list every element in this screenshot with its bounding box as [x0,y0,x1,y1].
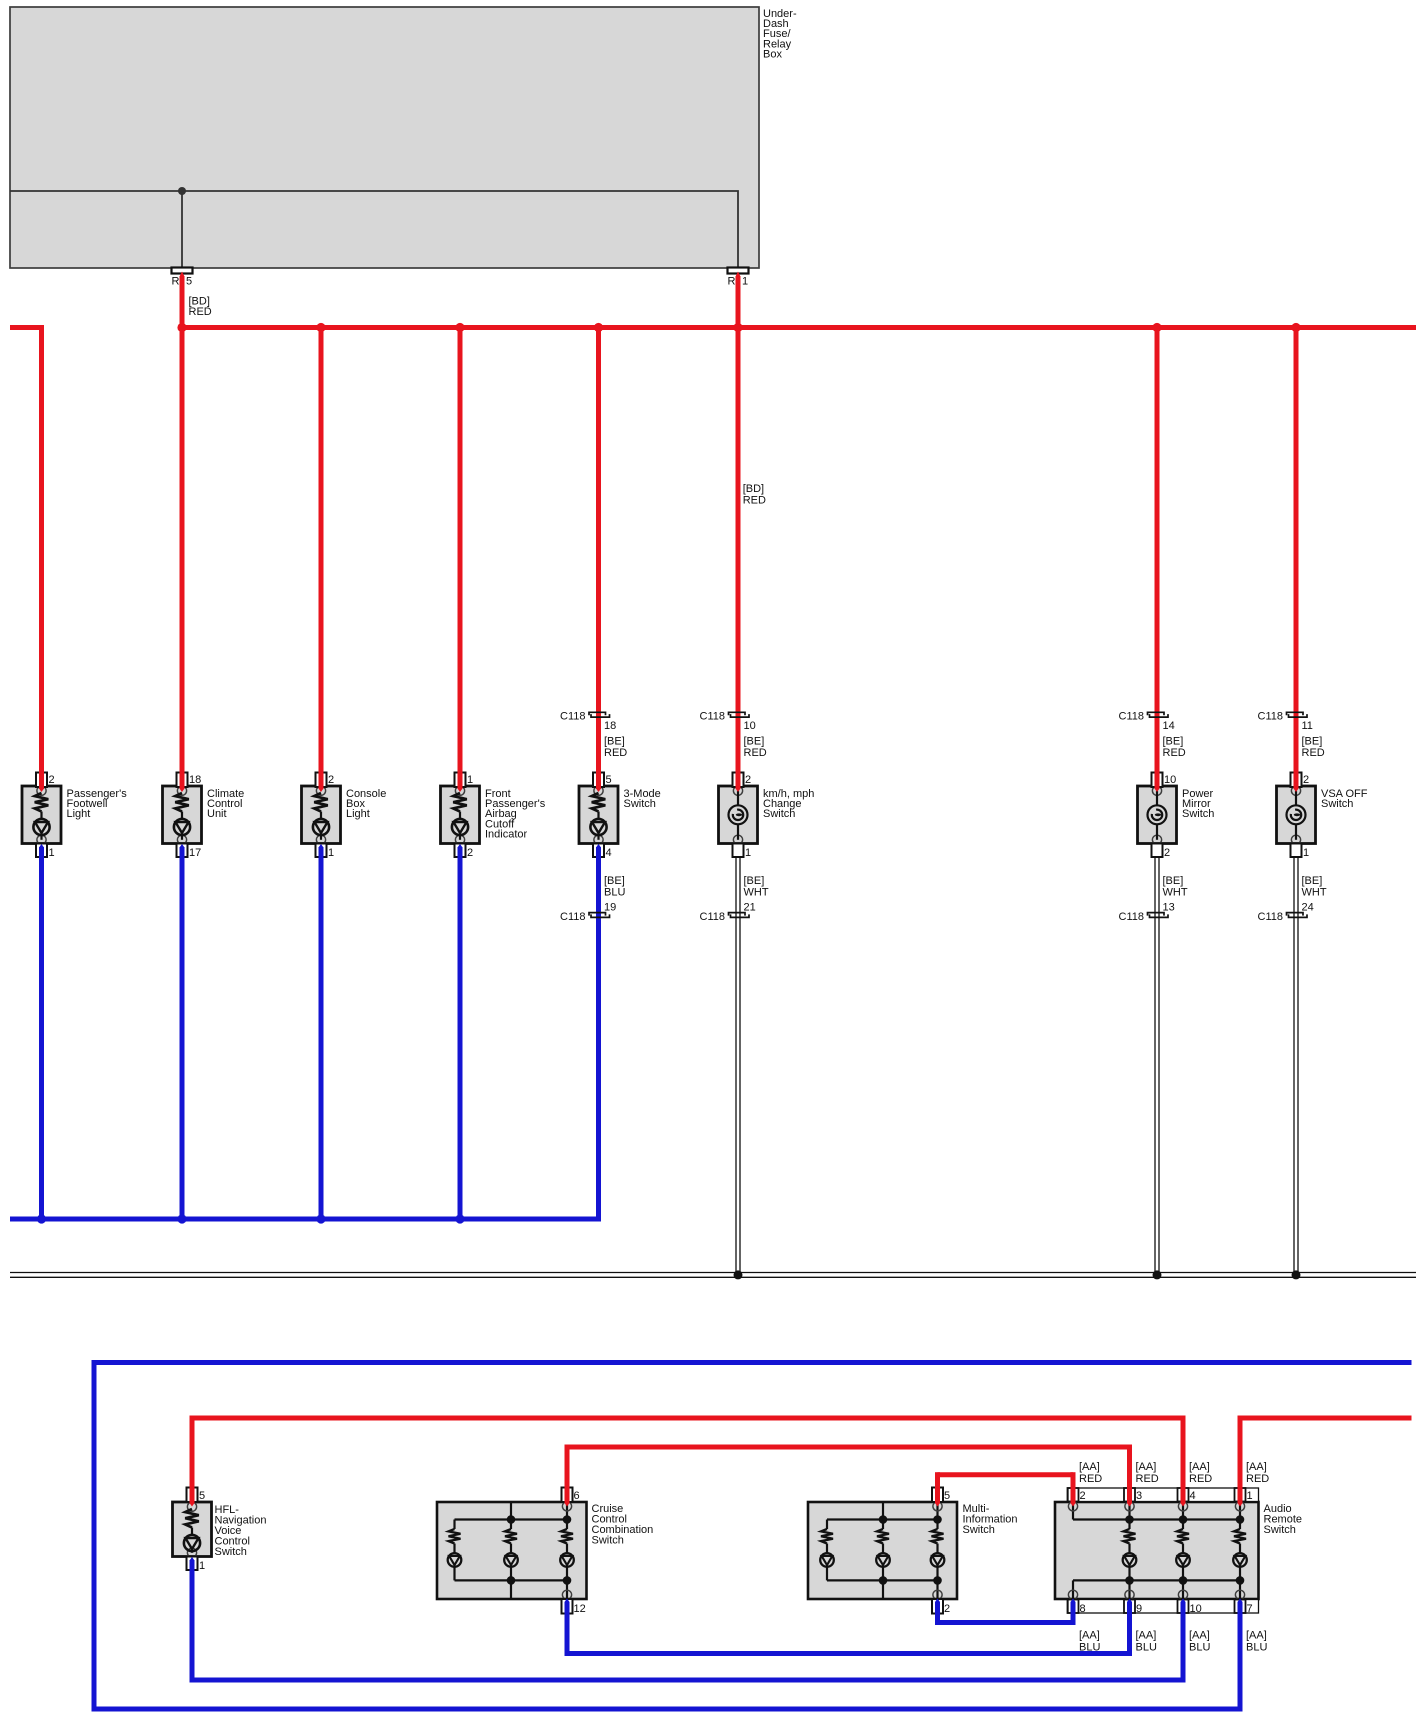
svg-text:C118: C118 [1119,710,1144,722]
svg-text:RED: RED [1302,747,1325,759]
svg-text:[BE]: [BE] [1302,736,1323,748]
svg-text:C118: C118 [700,710,725,722]
svg-text:BLU: BLU [1079,1642,1100,1654]
svg-text:RED: RED [743,494,766,506]
svg-text:[AA]: [AA] [1189,1461,1210,1473]
svg-text:Box: Box [763,48,782,60]
svg-text:WHT: WHT [1163,887,1188,899]
svg-text:WHT: WHT [1302,887,1327,899]
svg-text:C118: C118 [700,911,725,923]
svg-text:17: 17 [189,847,201,859]
svg-text:5: 5 [199,1490,205,1502]
svg-text:2: 2 [328,774,334,786]
svg-text:5: 5 [944,1490,950,1502]
svg-text:RED: RED [1189,1473,1212,1485]
svg-text:RED: RED [1136,1473,1159,1485]
svg-text:BLU: BLU [1136,1642,1157,1654]
svg-text:C118: C118 [560,710,585,722]
svg-text:6: 6 [574,1490,580,1502]
svg-text:[AA]: [AA] [1079,1461,1100,1473]
svg-text:[BE]: [BE] [744,875,765,887]
svg-text:5: 5 [606,774,612,786]
svg-text:21: 21 [744,902,756,914]
svg-text:4: 4 [606,847,612,859]
svg-text:[BD]: [BD] [743,483,764,495]
svg-text:[AA]: [AA] [1136,1630,1157,1642]
svg-text:10: 10 [1190,1603,1202,1615]
svg-text:Switch: Switch [592,1535,624,1547]
svg-text:19: 19 [604,902,616,914]
svg-text:Switch: Switch [1264,1524,1296,1536]
svg-text:C118: C118 [560,911,585,923]
svg-text:Indicator: Indicator [485,829,528,841]
svg-text:1: 1 [745,847,751,859]
svg-text:Switch: Switch [1321,798,1353,810]
svg-text:10: 10 [744,720,756,732]
svg-text:2: 2 [49,774,55,786]
svg-text:R: R [172,276,180,288]
svg-text:[AA]: [AA] [1136,1461,1157,1473]
svg-text:RED: RED [1246,1473,1269,1485]
svg-text:Switch: Switch [1182,808,1214,820]
svg-text:BLU: BLU [604,887,625,899]
svg-text:[BE]: [BE] [744,736,765,748]
svg-text:2: 2 [1164,847,1170,859]
svg-text:13: 13 [1163,902,1175,914]
svg-text:9: 9 [1136,1603,1142,1615]
svg-text:2: 2 [1303,774,1309,786]
svg-text:5: 5 [186,276,192,288]
svg-text:[BE]: [BE] [1302,875,1323,887]
svg-text:[AA]: [AA] [1246,1630,1267,1642]
svg-text:[BE]: [BE] [604,875,625,887]
svg-text:2: 2 [1080,1490,1086,1502]
svg-text:Switch: Switch [763,808,795,820]
svg-text:RED: RED [744,747,767,759]
svg-text:1: 1 [49,847,55,859]
svg-text:12: 12 [574,1603,586,1615]
svg-text:RED: RED [1079,1473,1102,1485]
svg-text:7: 7 [1247,1603,1253,1615]
svg-text:[AA]: [AA] [1189,1630,1210,1642]
svg-text:[BE]: [BE] [1163,736,1184,748]
svg-text:1: 1 [742,276,748,288]
svg-text:RED: RED [604,747,627,759]
svg-text:Light: Light [67,808,91,820]
svg-text:WHT: WHT [744,887,769,899]
svg-text:Switch: Switch [963,1524,995,1536]
svg-text:Switch: Switch [624,798,656,810]
svg-text:2: 2 [944,1603,950,1615]
svg-text:3: 3 [1136,1490,1142,1502]
svg-text:BLU: BLU [1246,1642,1267,1654]
svg-text:1: 1 [1303,847,1309,859]
svg-text:18: 18 [189,774,201,786]
svg-text:8: 8 [1080,1603,1086,1615]
svg-text:Light: Light [346,808,370,820]
svg-text:18: 18 [604,720,616,732]
svg-text:BLU: BLU [1189,1642,1210,1654]
svg-text:10: 10 [1164,774,1176,786]
svg-text:1: 1 [328,847,334,859]
svg-text:C118: C118 [1119,911,1144,923]
svg-text:[AA]: [AA] [1079,1630,1100,1642]
svg-text:R: R [728,276,736,288]
svg-text:14: 14 [1163,720,1175,732]
svg-text:[AA]: [AA] [1246,1461,1267,1473]
svg-text:1: 1 [199,1560,205,1572]
svg-text:RED: RED [189,306,212,318]
svg-text:Unit: Unit [207,808,227,820]
svg-text:24: 24 [1302,902,1314,914]
svg-text:Switch: Switch [215,1546,247,1558]
svg-text:2: 2 [745,774,751,786]
svg-text:1: 1 [467,774,473,786]
svg-text:C118: C118 [1258,911,1283,923]
svg-text:11: 11 [1302,720,1313,732]
svg-text:[BE]: [BE] [604,736,625,748]
svg-text:4: 4 [1190,1490,1196,1502]
svg-text:2: 2 [467,847,473,859]
svg-text:RED: RED [1163,747,1186,759]
svg-text:1: 1 [1247,1490,1253,1502]
svg-text:C118: C118 [1258,710,1283,722]
svg-text:[BE]: [BE] [1163,875,1184,887]
